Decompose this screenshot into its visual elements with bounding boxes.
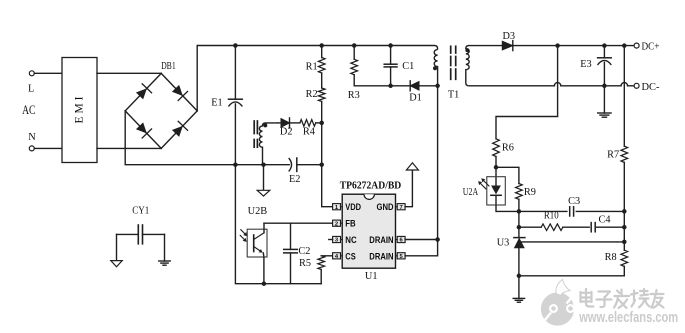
svg-text:L: L	[28, 84, 34, 95]
node rail B left	[517, 225, 522, 230]
node drain pins	[435, 237, 440, 242]
pin 4 CS	[333, 253, 341, 259]
svg-text:VDD: VDD	[345, 202, 361, 212]
resistor R3	[353, 46, 355, 60]
wire EMI to bridge top	[97, 72, 161, 74]
svg-text:E3: E3	[580, 59, 591, 70]
resistor R9	[516, 184, 523, 200]
rail C (U3 ref)	[522, 241, 625, 243]
svg-text:E1: E1	[211, 98, 222, 109]
DRAIN pin5 wire	[405, 240, 438, 256]
svg-text:C2: C2	[298, 246, 310, 257]
diode D1	[410, 82, 419, 91]
svg-text:U2B: U2B	[248, 206, 268, 217]
pin 5 DRAIN	[397, 253, 405, 259]
U2A emission arrows	[484, 181, 489, 186]
svg-text:GND: GND	[377, 202, 394, 212]
wire E1 down to source rail	[235, 165, 321, 284]
svg-text:CS: CS	[345, 251, 355, 261]
svg-text:NC: NC	[345, 235, 357, 245]
top rail wire	[197, 46, 437, 50]
terminal DC+	[634, 43, 639, 48]
wire DC+ to R7	[623, 46, 625, 147]
node rail B / right column	[622, 225, 627, 230]
watermark logo circle	[541, 280, 574, 326]
transformer T1 primary winding	[434, 50, 437, 86]
wire bridge negative to ground rail	[125, 111, 289, 165]
node rail D left	[517, 274, 522, 279]
wire to earth	[518, 276, 520, 299]
node top rail / E1	[233, 43, 238, 48]
terminal L	[29, 71, 34, 76]
resistor R6	[493, 139, 500, 157]
node ground rail / VDD line	[319, 162, 324, 167]
svg-text:D3: D3	[503, 31, 516, 42]
pin 1 VDD	[333, 204, 341, 210]
node top rail / C1	[388, 43, 393, 48]
wire DC+ to R6	[496, 46, 558, 139]
earth ground (secondary)	[598, 112, 611, 114]
primary polarity dot	[433, 66, 437, 70]
EMI filter block	[62, 58, 97, 163]
node source rail / U2B emitter	[262, 281, 267, 286]
svg-text:R1: R1	[306, 62, 318, 73]
transformer T1 secondary winding	[466, 46, 469, 86]
wire N to EMI	[34, 147, 62, 149]
U2B receive arrows	[241, 230, 245, 234]
svg-text:C4: C4	[598, 214, 610, 225]
U2B collector wire to FB	[263, 223, 265, 233]
rail A (opto return) with C3	[496, 210, 624, 212]
snubber bottom wire	[354, 85, 410, 87]
node rail A / right column	[622, 209, 627, 214]
bridge diode left-top	[136, 88, 147, 99]
svg-text:D1: D1	[409, 93, 422, 104]
svg-text:D2: D2	[280, 126, 293, 137]
ground arrow (primary return)	[263, 165, 265, 191]
svg-text:R4: R4	[303, 126, 315, 137]
node DC+/E3	[602, 43, 607, 48]
capacitor E1	[234, 46, 236, 100]
terminal DC-	[634, 83, 639, 88]
terminal N	[29, 146, 34, 151]
node DC+/feedback drop	[555, 43, 560, 48]
svg-text:U1: U1	[365, 271, 378, 282]
node DC-/E3	[602, 84, 607, 89]
wire to R9	[496, 167, 519, 183]
pin 6 DRAIN	[397, 236, 405, 242]
svg-text:C1: C1	[402, 61, 414, 72]
svg-text:EMI: EMI	[74, 96, 86, 123]
svg-text:C3: C3	[568, 196, 580, 207]
wire bridge positive to top rail	[196, 46, 198, 111]
svg-text:R5: R5	[299, 258, 311, 269]
bridge diode bottom-right	[172, 126, 183, 137]
capacitor E3	[603, 46, 605, 58]
node drain / D1	[435, 84, 440, 89]
svg-text:R10: R10	[544, 211, 559, 222]
earth right of CY1	[164, 234, 166, 261]
svg-text:TP6272AD/BD: TP6272AD/BD	[340, 179, 402, 191]
diode D3	[469, 45, 503, 47]
node ground rail / aux winding	[261, 162, 266, 167]
node R2/R4/VDD	[319, 121, 324, 126]
bridge rectifier DB1	[125, 73, 161, 111]
drain wire down to U1	[437, 86, 439, 240]
svg-text:R6: R6	[502, 143, 514, 154]
svg-text:R2: R2	[306, 89, 318, 100]
capacitor C1	[390, 46, 392, 65]
svg-text:R7: R7	[607, 150, 619, 161]
U1 body TP6272AD/BD	[342, 194, 395, 268]
node C1 bottom	[388, 84, 393, 89]
rail B : R10 and C4	[519, 226, 541, 228]
svg-text:7: 7	[400, 205, 403, 211]
earth ground (feedback)	[513, 297, 524, 299]
wire EMI to bridge bottom	[97, 147, 161, 149]
shunt regulator U3	[518, 227, 520, 237]
svg-text:FB: FB	[345, 219, 356, 229]
wire railA to railB	[518, 211, 520, 227]
wire L to EMI	[34, 72, 62, 74]
DRAIN pin6 wire	[405, 239, 438, 241]
FB wire	[264, 222, 333, 224]
svg-text:DC-: DC-	[642, 81, 660, 93]
node DC+/R7	[622, 43, 627, 48]
resistor R5	[321, 255, 332, 257]
U2B phototransistor	[253, 235, 255, 252]
svg-text:DRAIN: DRAIN	[369, 251, 393, 261]
resistor R2	[321, 73, 323, 88]
svg-text:DB1: DB1	[161, 61, 176, 72]
wire VDD line down	[322, 123, 333, 207]
optocoupler U2A LED	[495, 167, 497, 185]
node rail A / R9	[517, 209, 522, 214]
svg-text:N: N	[28, 132, 36, 143]
svg-text:U2A: U2A	[463, 187, 479, 198]
wire E3 to earth	[603, 86, 605, 113]
aux winding of T1	[259, 123, 278, 165]
resistor R8	[621, 250, 628, 266]
node top rail / R1	[319, 43, 324, 48]
resistor R1	[321, 46, 323, 58]
pin 2 FB	[333, 220, 341, 226]
capacitor E2	[289, 158, 292, 171]
resistor R7	[621, 146, 628, 162]
U2B emitter wire to source rail	[262, 253, 265, 284]
aux core	[253, 121, 255, 134]
GND pin wire and up arrow	[405, 170, 412, 207]
svg-text:CY1: CY1	[132, 206, 149, 217]
svg-text:R8: R8	[605, 252, 617, 263]
bridge diode top-right	[172, 85, 183, 96]
svg-text:2: 2	[335, 221, 338, 227]
svg-text:DRAIN: DRAIN	[369, 235, 393, 245]
svg-text:R9: R9	[524, 187, 536, 198]
node ground rail / E1	[233, 162, 238, 167]
resistor R4	[290, 122, 300, 124]
T1 core	[450, 46, 452, 53]
rail D bottom	[519, 275, 624, 277]
node R6/U2A/R9	[494, 165, 499, 170]
U2A box	[487, 177, 506, 205]
svg-text:E2: E2	[289, 174, 300, 185]
DC+ rail	[513, 45, 634, 47]
bridge diode left-bottom	[136, 122, 147, 133]
chassis arrow left of CY1	[116, 234, 118, 260]
pin 7 GND	[397, 204, 405, 210]
diode D2	[278, 122, 281, 124]
svg-text:www.elecfans.com: www.elecfans.com	[578, 310, 678, 326]
svg-text:R3: R3	[348, 90, 360, 101]
svg-text:DC+: DC+	[642, 41, 660, 53]
watermark chinese text	[581, 289, 664, 308]
aux winding polarity dot	[263, 123, 267, 127]
secondary polarity dot	[465, 48, 469, 52]
svg-text:T1: T1	[448, 90, 459, 101]
pin 3 NC	[333, 236, 341, 242]
DC- rail with hops	[469, 83, 634, 86]
node top rail / R3	[352, 43, 357, 48]
capacitor C2	[290, 223, 292, 249]
svg-text:U3: U3	[497, 238, 510, 249]
svg-text:AC: AC	[22, 103, 35, 117]
node rail C / right column	[622, 240, 627, 245]
